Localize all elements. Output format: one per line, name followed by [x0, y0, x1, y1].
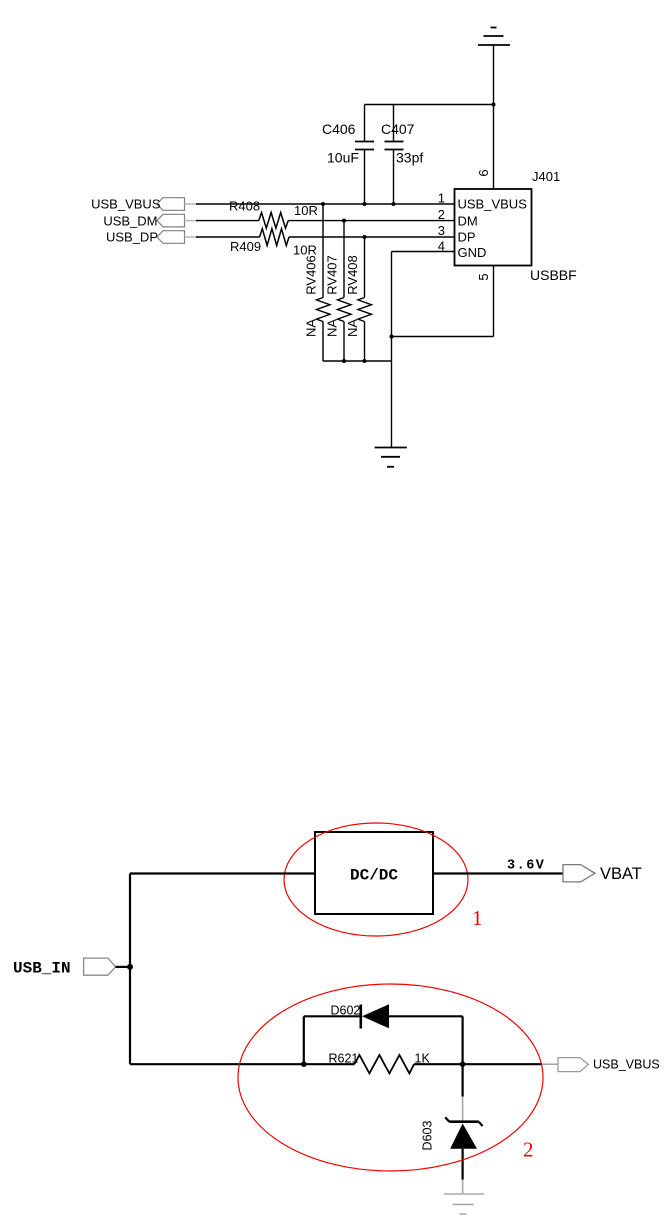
varistor RV407 [338, 221, 352, 361]
ground (inverted power ground at top) [478, 28, 510, 46]
svg-text:33pf: 33pf [396, 150, 423, 166]
svg-text:USB_DM: USB_DM [103, 213, 157, 228]
svg-text:DP: DP [458, 230, 476, 245]
svg-text:USB_VBUS: USB_VBUS [593, 1058, 660, 1072]
svg-text:3.6V: 3.6V [507, 859, 545, 874]
svg-text:3: 3 [438, 223, 445, 238]
ground (gray, under D603) [444, 1194, 484, 1214]
wire D603 bottom black [462, 1149, 464, 1180]
svg-text:RV407: RV407 [325, 255, 340, 295]
svg-text:GND: GND [458, 245, 487, 260]
svg-text:DC/DC: DC/DC [350, 867, 398, 885]
port USB_DM (left tag 2) [103, 213, 198, 228]
resistor R621 [354, 1055, 414, 1073]
svg-text:J401: J401 [532, 169, 560, 184]
port USB_VBUS (left tag 1) [91, 197, 198, 212]
wire bottom main horizontal (left of R621) [130, 1063, 354, 1065]
svg-text:RV408: RV408 [345, 255, 360, 295]
svg-text:USB_VBUS: USB_VBUS [91, 197, 161, 212]
svg-text:USB_IN: USB_IN [13, 960, 71, 978]
wire top horizontal (caps to pin6 net) [365, 104, 494, 106]
wire D602 branch left horizontal [304, 1015, 361, 1017]
svg-text:6: 6 [476, 169, 491, 176]
svg-text:1: 1 [438, 191, 445, 206]
svg-text:10R: 10R [294, 203, 318, 218]
svg-text:1: 1 [472, 906, 483, 930]
svg-text:NA: NA [304, 319, 319, 337]
node dot wire1/C407 [392, 202, 396, 206]
diode D602 [361, 1004, 389, 1028]
svg-text:R408: R408 [229, 199, 260, 214]
svg-text:2: 2 [438, 207, 445, 222]
wire D602 branch left vertical [303, 1016, 305, 1064]
connector J401 box [455, 189, 532, 266]
svg-text:R409: R409 [230, 239, 261, 254]
wire pin5 vertical [493, 266, 495, 337]
svg-text:D603: D603 [421, 1121, 435, 1151]
wire D602 branch right vertical [462, 1016, 464, 1064]
port USB_VBUS (bottom right) [558, 1058, 660, 1072]
varistor RV406 [317, 204, 331, 361]
node dot wire1/RV406 [321, 202, 325, 206]
svg-text:5: 5 [476, 273, 491, 280]
red ellipse 1 [284, 823, 468, 936]
wire D603 top black [462, 1064, 464, 1096]
wire USB_IN vertical [129, 874, 131, 1065]
wire pin4 GND horizontal [392, 251, 455, 253]
port VBAT [563, 865, 642, 884]
red ellipse 2 [238, 984, 543, 1171]
svg-text:USB_VBUS: USB_VBUS [458, 197, 528, 212]
wire D603 top gray (symbol pin) [462, 1097, 464, 1121]
svg-text:NA: NA [345, 319, 360, 337]
wire bottom main horizontal (right of R621) [414, 1063, 542, 1065]
node dot USB_IN junction [127, 964, 133, 970]
node dot bus/RV408 [363, 359, 367, 363]
svg-text:10uF: 10uF [327, 150, 359, 166]
DC/DC converter block U1 [315, 832, 433, 914]
port USB_IN [13, 958, 130, 977]
svg-text:VBAT: VBAT [600, 865, 642, 883]
svg-text:USBBF: USBBF [530, 267, 577, 283]
node dot wire2/RV407 [342, 219, 346, 223]
varistor RV408 [358, 237, 372, 361]
svg-text:NA: NA [325, 319, 340, 337]
svg-text:USB_DP: USB_DP [106, 230, 158, 245]
resistor R409 (series on DP line) [196, 229, 455, 246]
svg-text:D602: D602 [331, 1004, 361, 1018]
ground (bottom of top section) [375, 448, 407, 467]
capacitor C406 [355, 105, 374, 205]
wire GND vertical to ground [391, 252, 393, 448]
wire DC/DC input [130, 872, 315, 874]
wire varistor ground bus [323, 360, 392, 362]
svg-text:R621: R621 [329, 1052, 359, 1066]
svg-text:C407: C407 [381, 121, 415, 137]
svg-text:RV406: RV406 [304, 255, 319, 295]
svg-text:DM: DM [458, 213, 478, 228]
node dot bus/RV407 [342, 359, 346, 363]
svg-text:C406: C406 [322, 121, 356, 137]
node dot wire1/C406 [363, 202, 367, 206]
node dot right branch junction [460, 1061, 466, 1067]
resistor R408 (series on DM line) [196, 213, 455, 229]
wire DC/DC output 3.6V [433, 872, 563, 874]
wire pin5 horizontal [392, 336, 494, 338]
wire D602 branch right horizontal [389, 1015, 463, 1017]
node dot pin5/GND wire [390, 335, 394, 339]
wire gray stub to USB_VBUS port [542, 1063, 558, 1065]
svg-text:2: 2 [523, 1138, 534, 1162]
zener diode D603 [445, 1117, 482, 1149]
wire net USB_VBUS (tag1 to J401 pin1) [196, 203, 455, 205]
wire pin6 vertical (ground to J401 pin 6) [493, 45, 495, 189]
port USB_DP (left tag 3) [106, 230, 198, 245]
wire D603 bottom gray [462, 1180, 464, 1194]
node dot left branch junction [301, 1061, 307, 1067]
node junction pin6/top wire [492, 103, 496, 107]
node dot wire3/RV408 [363, 235, 367, 239]
capacitor C407 [385, 105, 404, 205]
